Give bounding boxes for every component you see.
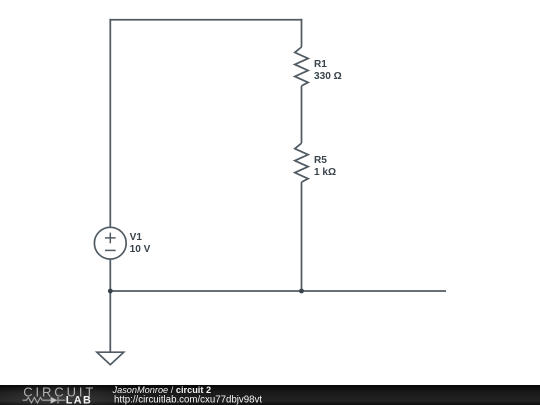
wire W2: top horizontal bbox=[109, 19, 302, 21]
ground symbol bbox=[97, 352, 124, 365]
resistor R5 bbox=[295, 143, 308, 182]
svg-text:10 V: 10 V bbox=[130, 244, 151, 255]
footer bar bbox=[0, 385, 540, 405]
junction node: bottom net at R5 branch bbox=[299, 289, 304, 294]
svg-text:http://circuitlab.com/cxu77dbj: http://circuitlab.com/cxu77dbjv98vt bbox=[114, 395, 262, 405]
voltage source V1 bbox=[94, 227, 126, 259]
svg-text:330 Ω: 330 Ω bbox=[314, 71, 342, 82]
svg-text:R5: R5 bbox=[314, 155, 327, 166]
svg-text:1 kΩ: 1 kΩ bbox=[314, 167, 336, 178]
svg-text:V1: V1 bbox=[130, 232, 143, 243]
wire W5: R5 pin 2 down to bottom node bbox=[301, 182, 303, 291]
footer logo resistor-diode glyph bbox=[23, 397, 66, 404]
wire W6: bottom horizontal net bbox=[110, 290, 446, 292]
wire W7: V1 negative terminal down to ground bbox=[109, 259, 111, 352]
wire W1: V1 positive terminal up to top-left corner bbox=[109, 19, 111, 228]
svg-text:LAB: LAB bbox=[66, 394, 92, 405]
wire W4: R1 pin 2 to R5 pin 1 bbox=[301, 86, 303, 143]
wire W3: top-right corner down to R1 pin 1 bbox=[301, 19, 303, 47]
junction node: bottom net at V1 branch bbox=[108, 289, 113, 294]
resistor R1 bbox=[295, 47, 308, 86]
svg-text:R1: R1 bbox=[314, 59, 327, 70]
